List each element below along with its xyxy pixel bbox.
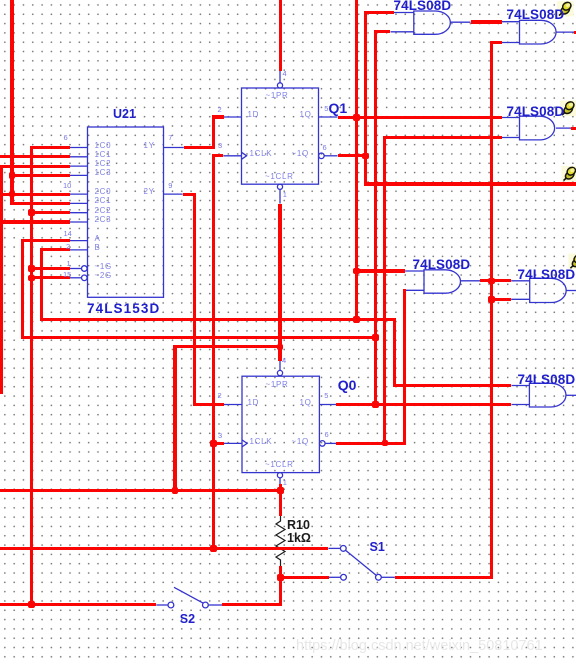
- U21 pin name 1C3: [95, 168, 112, 177]
- wire gate A in1 feed: [364, 11, 394, 14]
- wire V FF1 pin4 from top: [279, 0, 282, 71]
- AND gate B 74LS08D: [520, 20, 557, 44]
- gate C output stub: [556, 127, 571, 129]
- node junction V356-y320: [353, 316, 360, 323]
- label U21: [113, 107, 136, 121]
- U21 pin number 10: [63, 181, 71, 190]
- FF2 pin number 1: [283, 478, 287, 487]
- U21 pin name 1C1: [95, 150, 112, 159]
- FF1 pin number 5: [324, 104, 328, 113]
- U21 pin ~1G stub: [70, 268, 82, 270]
- U21 pin number 9: [168, 181, 172, 190]
- node junction clk-FF2: [210, 440, 217, 447]
- wire S1 lower-left feed: [279, 576, 329, 579]
- wire V x365 ~1Q riser: [364, 11, 367, 186]
- U21 pin number 1: [67, 259, 71, 268]
- FF2 pin name 1Q: [300, 398, 312, 407]
- FF2 pin 1D stub: [224, 404, 242, 406]
- wire V-left-top (net to 1C3/2C0/2C1): [10, 0, 13, 205]
- FF1 pin name 1CLK: [250, 149, 273, 158]
- node junction clk-y548: [210, 545, 217, 552]
- wire FF1 CLK feed: [212, 154, 224, 157]
- U21 pin name 2C1: [95, 196, 112, 205]
- wire pin A row: [21, 239, 70, 242]
- node junction V31-2G: [28, 275, 35, 282]
- wire gate D in1 feed: [355, 269, 405, 272]
- label gate D 74LS08D: [413, 257, 471, 272]
- wire gate A in2 feed: [374, 30, 391, 33]
- wire FF2 1D feed: [193, 403, 224, 406]
- U21 pin name 2Y: [144, 187, 155, 196]
- gate F output stub: [566, 394, 576, 396]
- value 1k ohm: [287, 531, 311, 545]
- FF1 pin 1Q stub: [319, 116, 338, 118]
- multiplexer U21 74LS153D body: [88, 127, 164, 297]
- wire gate F in1 feed: [393, 384, 512, 387]
- label gate F 74LS08D: [518, 372, 576, 387]
- FF2 pin ~1CLR bubble and stub: [277, 473, 282, 478]
- wire pin 2C0 row: [0, 193, 70, 196]
- label S2: [180, 612, 195, 626]
- FF2 pin ~1Q bubble and stub: [320, 441, 326, 447]
- U21 pin name 1C2: [95, 159, 112, 168]
- gate D input stubs: [405, 270, 424, 272]
- FF2 pin name ~1PR: [266, 380, 289, 389]
- FF2 pin 1Q stub: [319, 404, 336, 406]
- wire V x1.5 1C2 net: [0, 165, 3, 395]
- pin icon marker: [557, 1, 574, 17]
- label gate B 74LS08D: [507, 7, 565, 22]
- FF1 pin 1D stub: [224, 116, 242, 118]
- wire V clock net FF1-FF2-S1: [212, 154, 215, 550]
- wire clear net y490: [0, 489, 282, 492]
- wire ~1Q row: [338, 154, 368, 157]
- gate B output stub: [556, 31, 574, 33]
- U21 pin name 2C3: [95, 215, 112, 224]
- wire pin ~2G row: [30, 276, 70, 279]
- wire pin 1C0 row: [30, 146, 70, 149]
- FF2 pin name 1CLK: [250, 437, 273, 446]
- wire V x356 Q1 riser: [355, 0, 358, 321]
- FF2 pin name 1D: [248, 398, 260, 407]
- wire gate A out to gate B in1: [471, 20, 502, 23]
- FF1 pin name 1Q: [300, 110, 312, 119]
- wire V x385 ~Q0 riser to gate C: [383, 136, 386, 445]
- FF2 pin number 5: [324, 391, 328, 400]
- wire S1 right to V491: [395, 576, 493, 579]
- gate D output stub: [461, 280, 481, 282]
- U21 pin stub: [70, 156, 88, 158]
- node junction ~1Q-V365: [362, 153, 369, 160]
- wire pin A net horizontal y338: [21, 336, 377, 339]
- U21 pin name A: [95, 234, 101, 243]
- U21 pin name B: [95, 243, 101, 252]
- FF1 pin name ~1Q: [292, 149, 309, 158]
- U21 pin stub: [70, 221, 88, 223]
- FF2 pin number 3: [218, 431, 222, 440]
- wire V R10 bottom to S2 row: [279, 566, 282, 606]
- AND gate F 74LS08D: [529, 383, 566, 407]
- wire ~Q0 row: [336, 442, 406, 445]
- wire V 2Y to FF2 1D riser: [193, 193, 196, 407]
- node junction Q1-V356: [353, 114, 360, 121]
- wire pin 2C3 row: [0, 220, 70, 223]
- pin icon marker: [562, 166, 576, 182]
- label gate C 74LS08D: [507, 104, 565, 119]
- wire gate B out stub: [574, 31, 576, 34]
- flip-flop U? (Q1 stage) body: [242, 88, 319, 184]
- U21 pin number 14: [64, 229, 72, 238]
- FF1 pin name 1D: [248, 110, 260, 119]
- switch S1 terminals and lever: [328, 547, 340, 549]
- wire pin 1C2 row: [0, 165, 70, 168]
- wire FF1 1D feed: [212, 115, 224, 118]
- AND gate C 74LS08D: [520, 116, 555, 140]
- U21 pin stub: [70, 193, 88, 195]
- FF1 pin number 1: [283, 190, 287, 199]
- FF2 pin number 6: [325, 430, 329, 439]
- U21 pin stub: [70, 174, 88, 176]
- U21 pin name 2C2: [95, 206, 112, 215]
- U21 pin 1Y stub: [164, 147, 184, 149]
- label Q0: [338, 377, 357, 393]
- wire pin 1C1 row: [0, 155, 70, 158]
- gate C input stubs: [502, 117, 520, 119]
- node junction V175-clear: [172, 487, 179, 494]
- gate F input stubs: [512, 385, 530, 387]
- value label 74LS153D: [87, 301, 160, 316]
- node junction V280-S1: [277, 574, 284, 581]
- FF2 pin name ~1CLR: [265, 460, 294, 469]
- node junction V491-gateDout: [488, 278, 495, 285]
- label gate A 74LS08D: [394, 0, 452, 13]
- gate E input stubs: [511, 280, 530, 282]
- wire pin 1C3 row: [10, 174, 70, 177]
- wire gate B in2 stub: [490, 41, 502, 44]
- U21 pin 2Y stub: [164, 193, 183, 195]
- FF1 pin number 4: [283, 69, 287, 78]
- FF1 pin ~1PR bubble and stub: [279, 71, 281, 83]
- U21 pin name ~1G: [95, 262, 112, 271]
- wire clock net y548: [0, 547, 328, 550]
- wire V x22 pin A net: [21, 239, 24, 339]
- node junction V31-2C2: [28, 209, 35, 216]
- wire V FF2 pin1 to R10 top: [279, 484, 282, 516]
- wire FF2 CLK stub: [212, 442, 224, 445]
- node junction V356-gateD: [353, 268, 360, 275]
- node junction clear-V280: [277, 487, 284, 494]
- switch S2 terminals and lever: [156, 604, 168, 606]
- resistor R10 1kOhm symbol: [276, 516, 285, 566]
- node junction V491-gateEin2: [488, 296, 495, 303]
- label gate E 74LS08D: [518, 267, 576, 282]
- wire S2 left feed: [0, 603, 156, 606]
- U21 pin stub: [70, 212, 88, 214]
- FF1 pin number 3: [218, 141, 222, 150]
- FF1 pin ~1CLR bubble and stub: [277, 184, 282, 189]
- FF2 pin number 4: [282, 356, 286, 365]
- FF1 pin name ~1CLR: [265, 172, 294, 181]
- FF1 pin name ~1PR: [266, 91, 289, 100]
- FF2 pin number 2: [218, 391, 222, 400]
- gate B input stubs: [502, 21, 520, 23]
- pin icon marker: [568, 253, 576, 269]
- wire pin 2C1 row: [10, 202, 70, 205]
- gate E output stub: [566, 290, 576, 292]
- wire Q1 row to gate C: [338, 116, 502, 119]
- wire gate D out to gate E in1: [480, 279, 511, 282]
- watermark: [296, 638, 543, 654]
- wire V x375 Q0 riser to gate A: [374, 30, 377, 406]
- wire V FF1 pin1 to FF2 pin4: [278, 204, 281, 361]
- node junction V12-1C3: [9, 172, 16, 179]
- U21 pin stub: [70, 240, 88, 242]
- gate A output stub: [450, 21, 470, 23]
- wire 1Y output: [184, 146, 215, 149]
- FF2 pin 1CLK stub and triangle: [224, 442, 242, 444]
- U21 pin name ~2G: [95, 271, 112, 280]
- U21 pin ~2G stub: [70, 277, 82, 279]
- label Q1: [329, 100, 348, 116]
- wire S2 right to R10 bottom: [222, 603, 282, 606]
- wire pin 2C2 row: [30, 211, 70, 214]
- node junction V31-1G: [28, 265, 35, 272]
- FF1 pin 1CLK stub and triangle: [223, 155, 241, 157]
- wire V x491 gateB/D/E/S1 net: [490, 41, 493, 579]
- wire preset link y347: [173, 345, 280, 348]
- wire V 1Y to FF1 1D riser: [212, 115, 215, 149]
- wire pin B row: [40, 248, 70, 251]
- U21 pin stub: [70, 147, 88, 149]
- label S1: [370, 540, 385, 554]
- node junction V375-y338: [372, 334, 379, 341]
- U21 pin name 1C0: [95, 141, 112, 150]
- wire gate C out stub: [571, 127, 576, 130]
- node junction V385-~Q0: [382, 440, 389, 447]
- wire V preset net x175: [173, 345, 176, 492]
- AND gate D 74LS08D: [424, 270, 461, 293]
- FF2 pin name ~1Q: [292, 437, 309, 446]
- U21 pin stub: [70, 165, 88, 167]
- node junction V12-2C0: [9, 191, 16, 198]
- FF1 pin number 6: [323, 143, 327, 152]
- wire gate E in2 feed: [490, 298, 512, 301]
- U21 pin number 2: [66, 242, 70, 251]
- wire V x31 strobe net: [30, 146, 33, 606]
- U21 pin name 1Y: [144, 141, 155, 150]
- wire V x404 ~Q0 riser to gate D: [403, 289, 406, 445]
- wire Q0 row to gate F: [336, 403, 511, 406]
- U21 pin stub: [70, 202, 88, 204]
- U21 pin stub: [70, 249, 88, 251]
- label R10: [287, 518, 310, 532]
- wire V x41 pin B net: [40, 248, 43, 321]
- node junction preset-V280: [277, 344, 284, 351]
- node junction V375-Q0: [372, 401, 379, 408]
- wire pin ~1G row: [30, 267, 70, 270]
- U21 pin number 15: [63, 270, 71, 279]
- AND gate A 74LS08D: [414, 11, 451, 34]
- node junction V31-S2row: [28, 601, 35, 608]
- wire 2Y output: [183, 193, 196, 196]
- wire V x394 net B riser: [393, 318, 396, 387]
- flip-flop U? (Q0 stage) body: [242, 376, 319, 472]
- U21 pin number 7: [168, 133, 172, 142]
- U21 pin number 6: [64, 133, 68, 142]
- pin icon marker: [560, 100, 576, 116]
- AND gate E 74LS08D: [530, 278, 567, 302]
- wire ~1Q long wire right: [364, 182, 576, 185]
- FF2 pin ~1PR bubble and stub: [279, 361, 281, 371]
- wire net B horizontal y320: [40, 318, 396, 321]
- gate A input stubs: [394, 12, 414, 14]
- wire gate C in2 feed: [383, 136, 502, 139]
- FF1 pin number 2: [218, 105, 222, 114]
- FF1 pin ~1Q bubble and stub: [319, 153, 325, 159]
- U21 pin name 2C0: [95, 187, 112, 196]
